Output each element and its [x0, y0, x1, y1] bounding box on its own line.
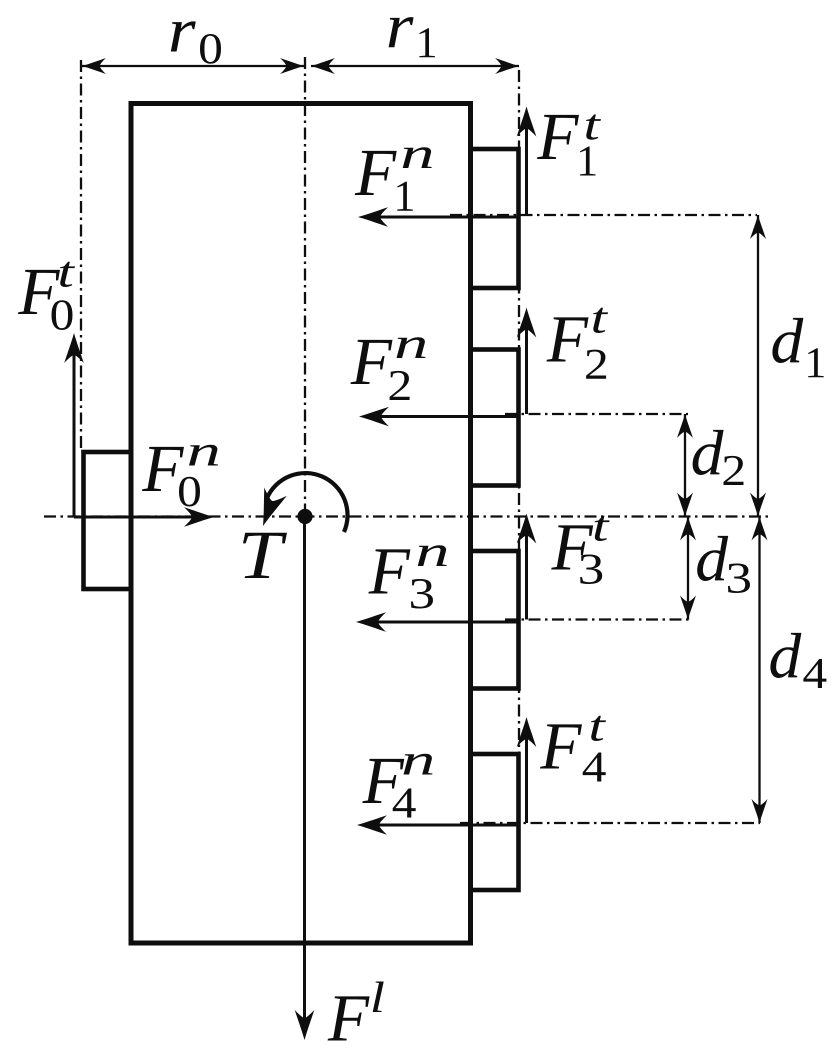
arrowhead F3n — [356, 612, 386, 632]
dimension d3 line — [687, 517, 689, 620]
label F4n — [362, 754, 432, 818]
arrowhead F2n — [359, 407, 389, 427]
dimension d1 line — [757, 215, 759, 517]
arrowhead r1 right — [495, 58, 519, 74]
label r0 — [171, 21, 221, 63]
arrowhead F3t — [517, 514, 537, 544]
tooth 4 (right) — [471, 754, 519, 890]
arrowhead F1t — [517, 107, 537, 137]
arrowhead F1n — [358, 207, 388, 227]
force F3t arrow line — [525, 525, 528, 620]
force F2t arrow line — [525, 319, 528, 414]
tooth 1 (right) — [471, 149, 519, 288]
arrowhead Fl — [295, 1010, 315, 1040]
arrowhead F4t — [517, 717, 537, 747]
arrowhead d3 top — [680, 517, 696, 541]
label r1 — [389, 17, 435, 57]
wire: center vertical dash-dot axis line — [304, 57, 306, 509]
label d3 — [697, 536, 750, 593]
arrowhead d2 top — [677, 414, 693, 438]
force F4n arrow line — [369, 824, 519, 827]
wire: tooth 2 contact dash-dot line — [505, 413, 688, 415]
force F0n arrow line — [74, 516, 203, 519]
torque T arc — [267, 473, 348, 532]
arrowhead torque T arc — [252, 488, 287, 531]
dimension d4 line — [758, 517, 760, 824]
force F2n arrow line — [371, 415, 519, 418]
label d1 — [772, 318, 823, 377]
arrowhead d4 top — [752, 517, 768, 541]
tooth 0 (left) — [84, 452, 132, 589]
label F0t — [18, 262, 75, 330]
arrowhead d2 bottom — [677, 493, 693, 517]
label F2n — [350, 337, 425, 400]
arrowhead F2t — [517, 308, 537, 338]
arrowhead r0 left — [82, 58, 106, 74]
label F1n — [355, 147, 432, 210]
wire: left vertical dash-dot extension line (left teeth tip line) — [80, 60, 82, 452]
tooth 2 (right) — [471, 350, 519, 486]
label F3n — [368, 545, 446, 608]
arrowhead F4n — [357, 815, 387, 835]
arrowhead d1 top — [750, 215, 766, 239]
arrowhead d3 bottom — [680, 596, 696, 620]
force F1n arrow line — [370, 216, 519, 219]
label F2t — [546, 308, 608, 379]
label F4t — [540, 716, 606, 782]
dimension r0 line — [82, 65, 304, 67]
arrowhead d4 bottom — [752, 799, 768, 823]
force F1t arrow line — [525, 118, 528, 215]
force F3n arrow line — [368, 621, 519, 624]
label F0n — [142, 445, 218, 507]
tooth 3 (right) — [471, 551, 519, 689]
label d2 — [693, 430, 744, 485]
wire: tooth 4 contact dash-dot line — [460, 822, 760, 824]
arrowhead d1 bottom — [750, 493, 766, 517]
force F0t arrow line — [73, 345, 76, 517]
arrowhead F0t — [64, 333, 84, 363]
arrowhead r0 right — [280, 58, 304, 74]
force F4t arrow line — [525, 729, 528, 823]
arrowhead r1 left — [311, 58, 335, 74]
arrowhead F0n — [184, 507, 214, 527]
gear body rectangle — [131, 104, 471, 944]
wire: tooth 1 contact dash-dot line — [450, 214, 757, 216]
label d4 — [770, 633, 826, 688]
label T — [243, 533, 287, 578]
dimension d2 line — [684, 414, 686, 517]
wire: right vertical dash-dot extension line (right teeth tip line) — [518, 70, 520, 890]
wire: horizontal center axis dash-dot line — [44, 515, 770, 517]
label Fl — [328, 981, 384, 1040]
wire: tooth 3 contact dash-dot line — [505, 618, 690, 620]
force Fl arrow line — [303, 517, 306, 1030]
label F1t — [537, 114, 601, 175]
dimension r1 line — [311, 65, 519, 67]
torque center dot — [297, 509, 312, 524]
label F3t — [551, 516, 609, 584]
